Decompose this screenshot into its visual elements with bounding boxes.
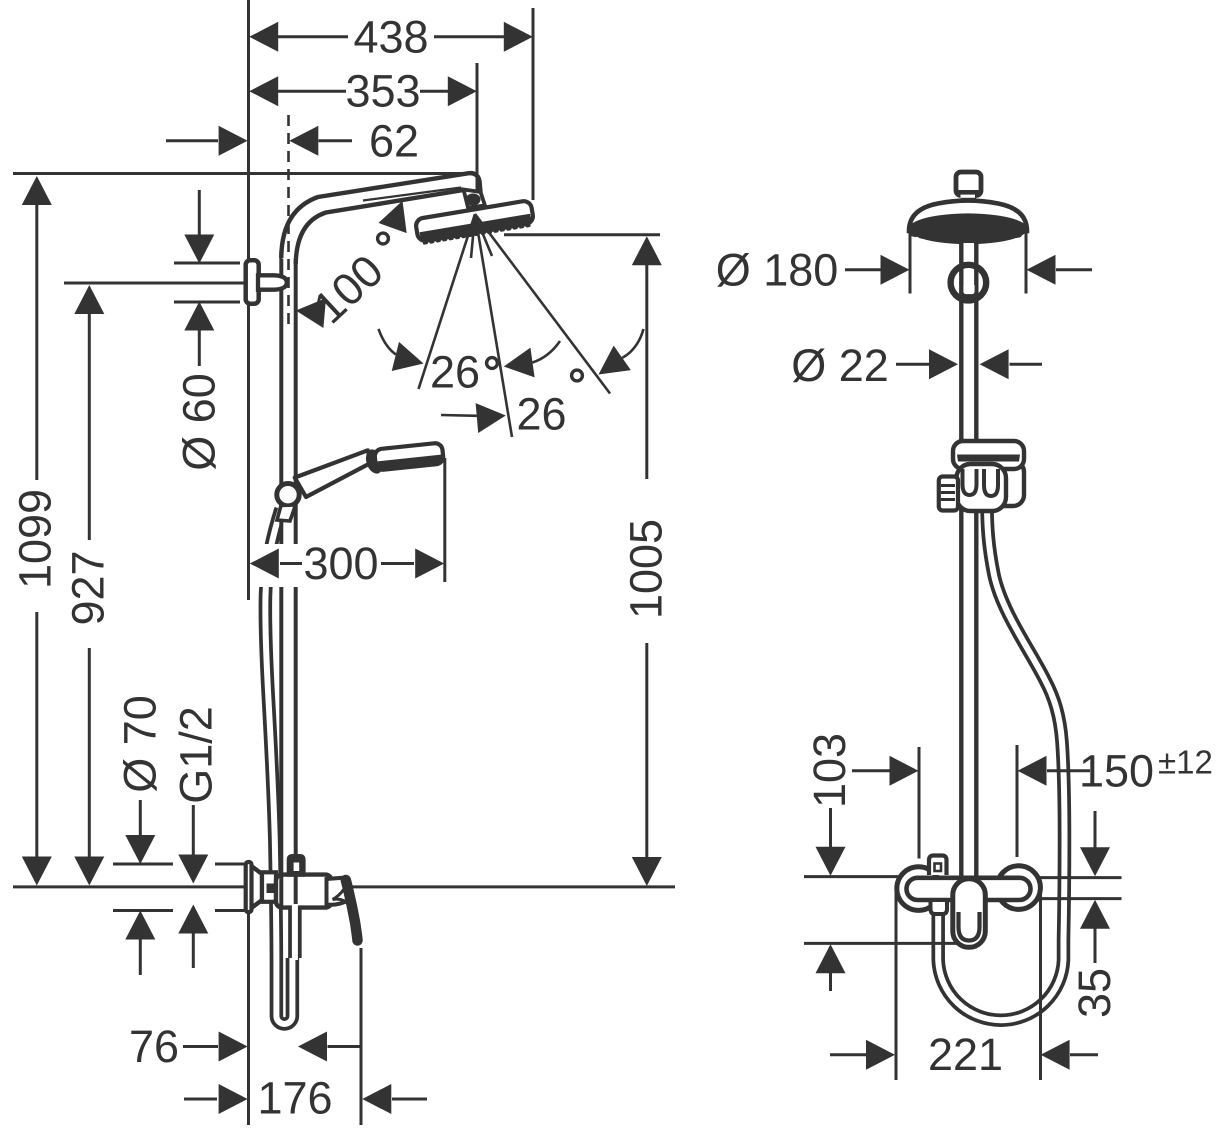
dim 76 [129,1021,361,1072]
dim diameter 70 [113,695,244,975]
svg-text:G1/2: G1/2 [171,706,222,804]
svg-text:150: 150 [1079,745,1154,796]
dim 150 plus-minus 12 [852,744,1213,859]
wire wall reference line [247,0,250,1125]
hose connector below ring [277,505,296,521]
angle 100 deg annotation [294,196,416,334]
spray fan lines [419,214,611,437]
hose left view [265,509,292,1024]
hose right view [938,502,1064,1020]
svg-text:±12: ±12 [1158,744,1213,781]
mixer union nut [262,872,276,902]
shower arm with bend [281,173,480,264]
dim 927 [63,285,114,886]
pipe left view [281,250,295,906]
dim 221 [830,890,1098,1080]
dim 62 [166,115,419,166]
svg-text:26: 26 [430,347,480,398]
wall holder flange [246,260,287,303]
dim 353 [249,63,477,192]
svg-text:Ø 22: Ø 22 [791,340,889,391]
hand shower joint [363,447,386,476]
dim 1005 [504,235,672,886]
svg-text:221: 221 [928,1029,1003,1080]
svg-text:Ø 70: Ø 70 [115,695,166,793]
hand shower handle [295,450,372,497]
supply reference lines right view [804,877,1122,944]
svg-text:927: 927 [63,550,114,625]
svg-text:76: 76 [129,1021,179,1072]
mixer diverter knob left view [289,856,304,875]
dim diameter 60 [174,190,241,471]
dashed centerline for dim 62 [287,115,290,325]
dim G1/2 [171,706,222,968]
mixer hose port left view [288,904,302,960]
dim 35 [1069,811,1120,1018]
shower head left view [415,200,535,244]
svg-text:62: 62 [369,115,419,166]
mixer right view [897,856,1041,948]
svg-text:1099: 1099 [10,489,61,589]
dim diameter 180 [716,228,1092,295]
shower head dome right view [908,201,1027,245]
top ball fitting right view [956,172,981,200]
mixer lever handle [327,878,351,905]
mixer body [276,875,332,908]
holder unit right view [939,441,1024,511]
svg-text:438: 438 [353,11,428,62]
wire mixer centerline [13,885,675,888]
dim 438 [249,8,533,200]
wire top reference line [13,172,476,175]
svg-text:1005: 1005 [621,519,672,619]
angle 26 deg first [379,329,561,398]
mixer left view [246,856,358,941]
pipe right view [961,243,976,878]
dim diameter 22 [791,340,1042,391]
dim 1099 [10,176,61,886]
dim 103 [804,733,855,991]
head connector left view [464,190,486,208]
wire 927 upper reference line [64,282,250,285]
slider ring right view [951,265,987,301]
svg-text:35: 35 [1069,968,1120,1018]
svg-text:Ø 60: Ø 60 [174,373,225,471]
hand shower holder ring [277,484,299,506]
dim 176 [184,948,427,1125]
svg-text:26: 26 [516,389,566,440]
mixer hose port right view [931,902,948,914]
dim 300 [250,458,447,589]
svg-text:176: 176 [257,1073,332,1124]
svg-text:103: 103 [804,733,855,808]
svg-text:Ø 180: Ø 180 [716,244,839,295]
svg-text:300: 300 [303,538,378,589]
mixer escutcheon cone [251,866,262,908]
svg-text:353: 353 [345,66,420,117]
hand shower head [374,443,444,471]
angle 26 deg second [441,329,644,440]
